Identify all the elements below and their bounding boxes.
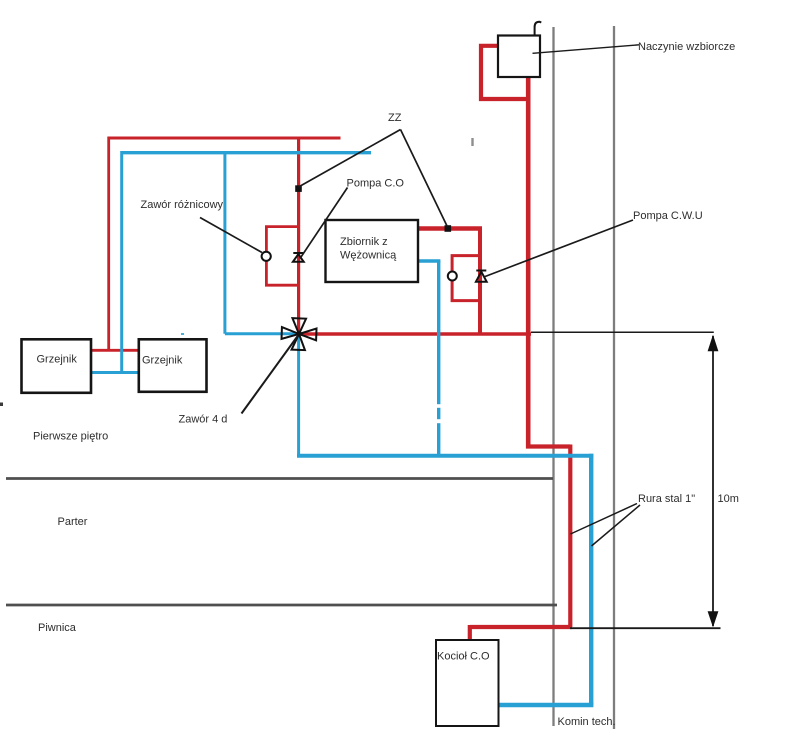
pointer line ZZ to upper marker — [299, 130, 401, 188]
label line Naczynie wzbiorcze — [533, 45, 640, 54]
svg-text:Parter: Parter — [58, 516, 88, 528]
dimension extension line bottom — [570, 627, 721, 629]
svg-text:10m: 10m — [718, 493, 739, 505]
svg-text:Pompa C.O: Pompa C.O — [347, 177, 405, 189]
pointer line Zawor roznicowy — [200, 218, 262, 253]
differential valve circle symbol — [262, 252, 271, 261]
svg-text:Zbiornik z: Zbiornik z — [340, 236, 388, 248]
pipe red basement horizontal — [526, 444, 570, 448]
chimney wall line left (Komin tech.) — [552, 27, 554, 726]
pointer line ZZ to right marker — [401, 130, 448, 228]
circulation circle symbol on CWU loop — [448, 272, 457, 281]
pipe red boiler feed horizontal — [470, 625, 572, 629]
dimension extension line top — [531, 331, 714, 333]
pipe blue return top horizontal — [122, 151, 371, 154]
pipe red supply top horizontal — [108, 137, 341, 140]
pipe red boiler stub — [468, 625, 472, 640]
floor line Piwnica level — [6, 604, 557, 607]
svg-text:Naczynie wzbiorcze: Naczynie wzbiorcze — [638, 41, 735, 53]
pointer line Rura stal to red pipe — [571, 504, 638, 535]
floor line Parter level — [6, 477, 553, 480]
svg-text:Rura stal 1": Rura stal 1" — [638, 493, 695, 505]
pipe red middle riser — [297, 137, 300, 334]
pump symbol Pompa C.O — [293, 253, 304, 262]
svg-text:Pierwsze piętro: Pierwsze piętro — [33, 431, 108, 443]
pipe red tank outlet — [416, 226, 482, 231]
pipe red horizontal from 4-way valve — [299, 332, 531, 336]
tank box Zbiornik z Wezownica — [326, 220, 419, 282]
pipe red CWU riser — [478, 229, 482, 335]
pipe blue valve drop — [297, 334, 300, 456]
pipe blue radiator link — [91, 371, 139, 374]
dimension line 10m — [712, 336, 714, 626]
check valve marker ZZ upper — [295, 185, 302, 192]
radiator box Grzejnik 2 — [139, 339, 207, 392]
pipe blue middle riser — [223, 151, 226, 334]
svg-text:Grzejnik: Grzejnik — [37, 354, 78, 366]
chimney wall line right (Komin tech.) — [613, 26, 615, 729]
four-way mixing valve Zawor 4d — [281, 318, 317, 351]
expansion vessel box — [498, 36, 540, 78]
pipe blue tank return stub — [418, 259, 440, 262]
svg-text:Wężownicą: Wężownicą — [340, 250, 397, 262]
pipe red main riser — [526, 76, 531, 449]
pointer line Rura stal to blue pipe — [592, 505, 641, 546]
pipe red basement drop — [568, 445, 572, 628]
dimension arrow up — [708, 335, 719, 352]
pipe red expansion vessel loop — [481, 46, 528, 99]
stray blue dot — [181, 333, 184, 335]
expansion vessel vent hook — [535, 22, 542, 36]
check valve marker ZZ right — [445, 225, 452, 232]
pointer line Pompa C.W.U — [484, 220, 633, 277]
svg-text:Pompa C.W.U: Pompa C.W.U — [633, 210, 703, 222]
pipe blue to 4-way valve — [225, 332, 299, 335]
pipe red CWU loop — [452, 256, 479, 301]
svg-text:Zawór różnicowy: Zawór różnicowy — [141, 199, 224, 211]
stray gray tick — [471, 138, 473, 146]
stray left edge mark — [0, 403, 3, 407]
pointer line Pompa C.O — [300, 188, 348, 259]
dimension arrow down — [708, 611, 719, 627]
boiler box Kociol C.O — [436, 640, 499, 726]
pipe blue left riser — [120, 151, 123, 373]
svg-text:Piwnica: Piwnica — [38, 622, 77, 634]
watermark gap on blue riser — [435, 404, 444, 423]
svg-text:Komin tech.: Komin tech. — [558, 716, 616, 728]
pipe blue tank return riser — [437, 261, 440, 456]
radiator box Grzejnik 1 — [22, 339, 92, 393]
pointer line Zawor 4 d — [242, 336, 299, 414]
pipe red radiator link — [91, 349, 139, 352]
pipe blue collector horizontal — [297, 454, 593, 458]
pipe blue basement drop — [589, 454, 593, 705]
pump symbol Pompa C.W.U — [476, 271, 487, 282]
pipe blue boiler return — [499, 703, 594, 707]
svg-text:Grzejnik: Grzejnik — [142, 355, 183, 367]
svg-text:Kocioł C.O: Kocioł C.O — [437, 650, 490, 662]
pipe red bypass loop Zawor roznicowy — [266, 227, 298, 286]
svg-text:ZZ: ZZ — [388, 112, 402, 124]
pipe red left riser — [107, 137, 110, 351]
svg-text:Zawór 4 d: Zawór 4 d — [179, 413, 228, 425]
